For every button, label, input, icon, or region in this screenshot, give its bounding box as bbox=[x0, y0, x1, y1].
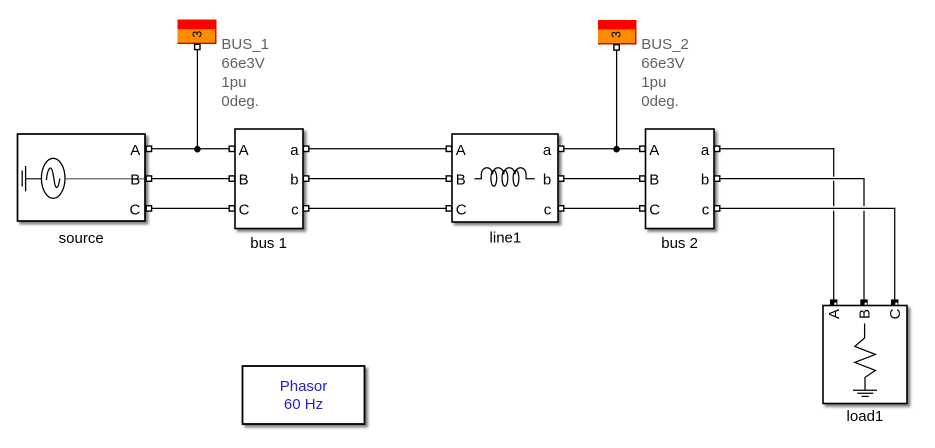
wire phase a drop to load1 port A bbox=[833, 148, 835, 299]
wire phase A line1 to bus2 bbox=[564, 148, 639, 150]
svg-text:1pu: 1pu bbox=[641, 74, 666, 91]
port BUS_1 bottom bbox=[195, 44, 200, 49]
svg-text:0deg.: 0deg. bbox=[641, 93, 679, 110]
svg-text:0deg.: 0deg. bbox=[221, 93, 259, 110]
svg-text:c: c bbox=[702, 201, 710, 218]
port bus1.b bbox=[303, 176, 308, 181]
svg-text:B: B bbox=[649, 172, 659, 189]
block load1 (three-phase RLC load) bbox=[823, 306, 907, 404]
port bus2.A bbox=[640, 146, 645, 151]
svg-text:bus 2: bus 2 bbox=[661, 235, 698, 252]
svg-text:b: b bbox=[543, 172, 551, 189]
svg-text:A: A bbox=[456, 142, 466, 159]
node junction BUS_2 on phase A bbox=[613, 146, 620, 153]
port bus1.c bbox=[303, 206, 308, 211]
svg-text:bus 1: bus 1 bbox=[250, 235, 287, 252]
port BUS_2 bottom bbox=[614, 45, 619, 50]
port source.A bbox=[146, 146, 151, 151]
ground/battery symbol inside source bbox=[22, 166, 25, 191]
measurement tag BUS_1 (red/orange label block) bbox=[178, 20, 217, 45]
annotation BUS_2 values bbox=[641, 36, 689, 110]
port bus2.C bbox=[640, 206, 645, 211]
AC source circle U-src bbox=[41, 158, 65, 198]
wire phase C line1 to bus2 bbox=[564, 207, 639, 209]
inductor L1 coil icon bbox=[475, 168, 535, 179]
port load1.C (connected, filled) bbox=[891, 299, 898, 306]
svg-text:A: A bbox=[826, 309, 843, 319]
block Phasor simulation (powergui) bbox=[243, 366, 365, 424]
svg-text:c: c bbox=[544, 201, 552, 218]
block bus 1 bbox=[235, 129, 303, 229]
svg-text:C: C bbox=[887, 308, 904, 319]
svg-text:C: C bbox=[129, 201, 140, 218]
svg-text:60 Hz: 60 Hz bbox=[284, 396, 323, 413]
port load1.A (connected, filled) bbox=[830, 299, 837, 306]
svg-text:BUS_2: BUS_2 bbox=[641, 36, 689, 53]
port source.B bbox=[146, 176, 151, 181]
port source.C bbox=[146, 206, 151, 211]
wire phase a bus2 to load1 (horizontal) bbox=[720, 148, 834, 150]
wire phase C source to bus1 bbox=[152, 207, 229, 209]
port bus1.a bbox=[303, 146, 308, 151]
port line1.c bbox=[558, 206, 563, 211]
svg-text:1pu: 1pu bbox=[221, 74, 246, 91]
port line1.B bbox=[446, 176, 451, 181]
block bus 2 bbox=[646, 129, 715, 229]
svg-text:a: a bbox=[701, 142, 710, 159]
port bus1.B bbox=[229, 176, 234, 181]
port line1.a bbox=[558, 146, 563, 151]
svg-text:Phasor: Phasor bbox=[280, 378, 328, 395]
wire phase B bus1 to line1 bbox=[309, 178, 445, 180]
svg-text:C: C bbox=[239, 201, 250, 218]
svg-text:line1: line1 bbox=[490, 230, 522, 247]
svg-text:B: B bbox=[456, 172, 466, 189]
svg-text:3: 3 bbox=[190, 31, 204, 38]
wire BUS_1 tap drop bbox=[196, 50, 198, 149]
svg-text:A: A bbox=[649, 142, 659, 159]
port bus2.b bbox=[714, 176, 719, 181]
node junction BUS_1 on phase A bbox=[194, 146, 201, 153]
port bus2.a bbox=[714, 146, 719, 151]
resistor R-load icon bbox=[855, 324, 876, 390]
svg-text:a: a bbox=[543, 142, 552, 159]
svg-text:C: C bbox=[649, 201, 660, 218]
wire phase A source to bus1 bbox=[152, 148, 229, 150]
wire phase C bus1 to line1 bbox=[309, 207, 445, 209]
port line1.A bbox=[446, 146, 451, 151]
block line1 (series RL branch) bbox=[452, 134, 558, 222]
wire phase A bus1 to line1 bbox=[309, 148, 445, 150]
svg-text:3: 3 bbox=[610, 31, 624, 38]
svg-text:66e3V: 66e3V bbox=[221, 55, 264, 72]
port line1.b bbox=[558, 176, 563, 181]
port bus2.c bbox=[714, 206, 719, 211]
port line1.C bbox=[446, 206, 451, 211]
wire phase b bus2 to load1 (horizontal) bbox=[720, 178, 864, 180]
svg-text:B: B bbox=[130, 172, 140, 189]
wire phase B source to bus1 bbox=[152, 178, 229, 180]
svg-text:b: b bbox=[701, 172, 709, 189]
wire internal source lead bbox=[26, 178, 42, 180]
wire phase b drop to load1 port B bbox=[863, 178, 865, 300]
annotation BUS_1 values bbox=[221, 36, 269, 110]
svg-text:B: B bbox=[856, 309, 873, 319]
svg-text:A: A bbox=[239, 142, 249, 159]
svg-text:C: C bbox=[456, 201, 467, 218]
measurement tag BUS_2 (red/orange label block) bbox=[598, 20, 637, 45]
wire phase c bus2 to load1 (horizontal) bbox=[720, 207, 895, 209]
svg-text:a: a bbox=[290, 142, 299, 159]
svg-text:A: A bbox=[130, 142, 140, 159]
wire phase c drop to load1 port C bbox=[894, 208, 896, 300]
port bus2.B bbox=[640, 176, 645, 181]
svg-text:B: B bbox=[239, 172, 249, 189]
svg-text:c: c bbox=[291, 201, 299, 218]
svg-text:BUS_1: BUS_1 bbox=[221, 36, 269, 53]
port bus1.A bbox=[229, 146, 234, 151]
inductor L1 lower loops bbox=[491, 170, 519, 186]
sine wave inside AC source bbox=[46, 168, 60, 188]
wire internal source to B bbox=[65, 178, 144, 180]
svg-text:66e3V: 66e3V bbox=[641, 55, 684, 72]
block source (three-phase voltage source) bbox=[18, 134, 146, 221]
svg-text:source: source bbox=[59, 230, 104, 247]
port load1.B (connected, filled) bbox=[860, 299, 867, 306]
svg-text:load1: load1 bbox=[847, 408, 884, 425]
ground symbol inside load1 bbox=[853, 390, 877, 396]
wire BUS_2 tap drop bbox=[616, 51, 618, 149]
svg-text:b: b bbox=[290, 172, 298, 189]
port bus1.C bbox=[229, 206, 234, 211]
wire phase B line1 to bus2 bbox=[564, 178, 639, 180]
